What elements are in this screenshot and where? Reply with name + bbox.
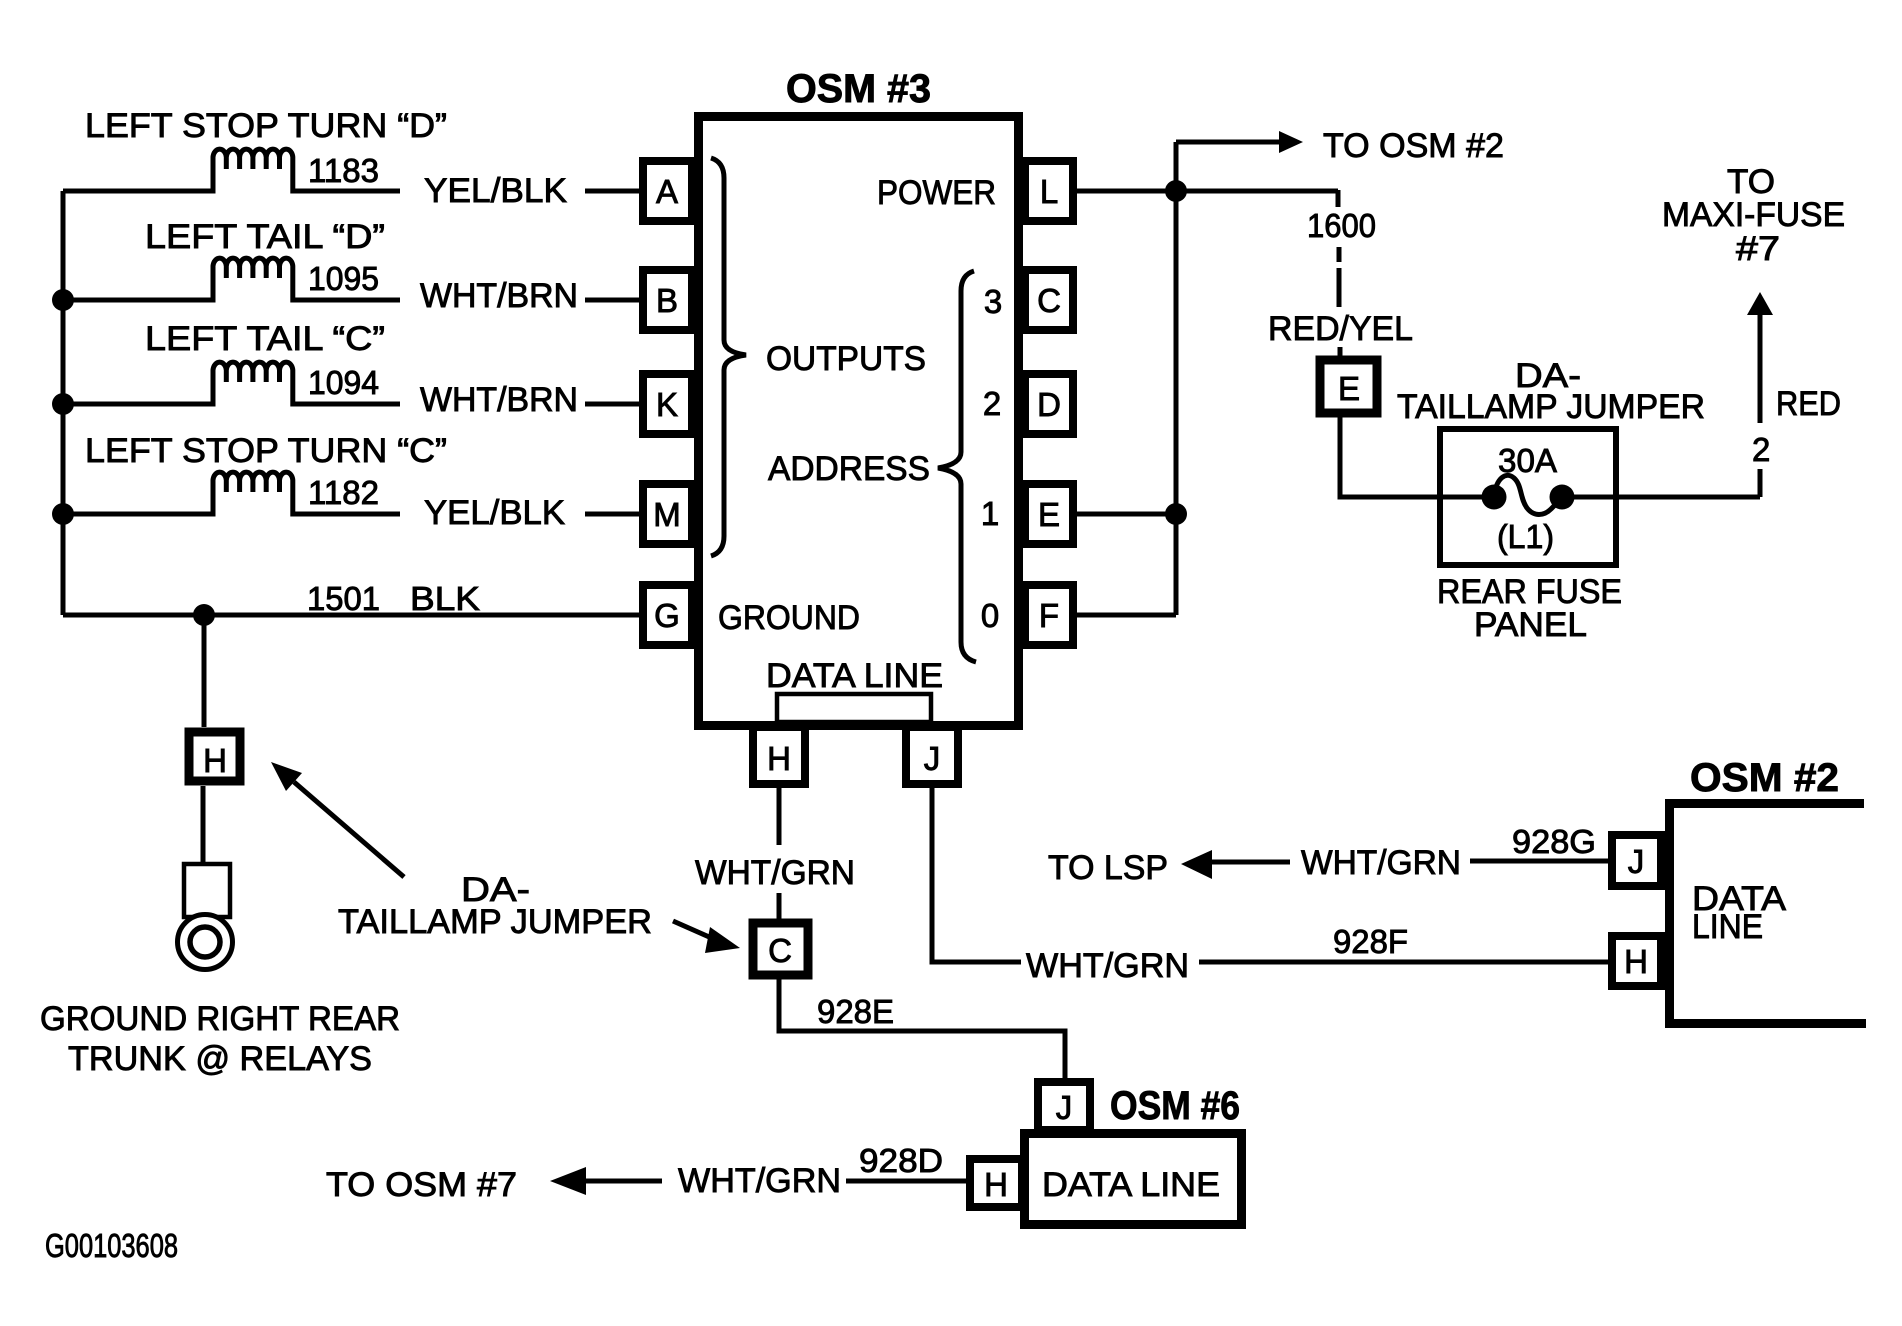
svg-text:L: L [1040, 173, 1058, 210]
svg-text:YEL/BLK: YEL/BLK [424, 494, 565, 532]
svg-text:2: 2 [983, 385, 1001, 422]
pin M [643, 484, 692, 544]
svg-text:GROUND RIGHT REAR: GROUND RIGHT REAR [40, 1000, 400, 1038]
wire left bus [61, 191, 66, 615]
arrowhead TO OSM #7 [550, 1167, 586, 1195]
right bus [1174, 142, 1179, 615]
pin F [1025, 585, 1073, 645]
svg-text:OSM #3: OSM #3 [786, 67, 931, 111]
svg-text:MAXI-FUSE: MAXI-FUSE [1662, 196, 1845, 234]
junction dot [52, 393, 74, 415]
svg-text:WHT/GRN: WHT/GRN [695, 854, 855, 892]
wire J down to OSM2 H [932, 784, 1612, 962]
pin H OSM6 [970, 1159, 1022, 1207]
wire E to bus [1073, 512, 1176, 517]
svg-text:C: C [768, 932, 792, 969]
svg-text:YEL/BLK: YEL/BLK [424, 172, 567, 210]
svg-text:928G: 928G [1512, 823, 1596, 860]
wire to ground connector [202, 615, 207, 727]
arrowhead to ground connector H [271, 762, 302, 791]
svg-text:H: H [203, 742, 227, 779]
svg-text:DATA LINE: DATA LINE [1042, 1166, 1220, 1204]
coil LEFT STOP TURN C 1182 [63, 472, 400, 514]
svg-text:RED: RED [1776, 385, 1841, 423]
svg-text:TO LSP: TO LSP [1048, 849, 1168, 887]
svg-text:POWER: POWER [877, 174, 996, 212]
pin D [1025, 374, 1073, 434]
wire dash to pin K [585, 402, 639, 407]
connector C [753, 923, 808, 975]
pin C [1025, 270, 1073, 330]
arrowhead to OSM #2 [1279, 131, 1303, 153]
svg-text:OUTPUTS: OUTPUTS [766, 340, 926, 378]
wire L to 1600 corner [1073, 189, 1338, 194]
svg-text:WHT/GRN: WHT/GRN [678, 1162, 841, 1200]
svg-text:ADDRESS: ADDRESS [768, 450, 930, 488]
svg-text:WHT/GRN: WHT/GRN [1301, 844, 1461, 882]
rear fuse panel box [1440, 429, 1616, 565]
svg-text:#7: #7 [1736, 230, 1780, 268]
pin L [1025, 161, 1073, 221]
svg-text:H: H [1624, 943, 1648, 980]
connector H ground [189, 732, 240, 781]
svg-text:WHT/GRN: WHT/GRN [1026, 947, 1189, 985]
pin K [643, 374, 692, 434]
svg-text:TO OSM #7: TO OSM #7 [326, 1166, 517, 1204]
svg-text:RED/YEL: RED/YEL [1268, 310, 1413, 348]
junction dot [1165, 503, 1187, 525]
junction dot [52, 289, 74, 311]
pin J bottom [906, 727, 958, 784]
svg-text:LEFT TAIL “C”: LEFT TAIL “C” [145, 320, 385, 358]
wire dash to pin M [585, 512, 639, 517]
pin E [1025, 484, 1073, 544]
svg-text:1183: 1183 [308, 152, 379, 189]
arrowhead to maxi-fuse [1747, 292, 1773, 315]
arrow to ground connector [294, 782, 404, 877]
coil LEFT TAIL D 1095 [63, 258, 400, 300]
pin J OSM6 [1038, 1082, 1090, 1130]
ring terminal [184, 864, 230, 917]
wire to ring terminal [201, 786, 206, 866]
svg-text:PANEL: PANEL [1474, 606, 1587, 644]
svg-text:LINE: LINE [1692, 908, 1763, 946]
svg-text:1: 1 [981, 495, 999, 532]
svg-text:LEFT STOP TURN “C”: LEFT STOP TURN “C” [85, 432, 447, 470]
svg-text:D: D [1037, 386, 1061, 423]
svg-text:WHT/BRN: WHT/BRN [420, 277, 578, 315]
svg-text:LEFT STOP TURN “D”: LEFT STOP TURN “D” [85, 107, 447, 145]
svg-text:B: B [656, 282, 678, 319]
wire dash to pin B [585, 298, 639, 303]
svg-text:3: 3 [984, 283, 1002, 320]
svg-text:G: G [654, 597, 680, 634]
wire 928D [846, 1179, 966, 1184]
svg-text:C: C [1037, 282, 1061, 319]
junction dot [1165, 180, 1187, 202]
wire dash to pin A [585, 189, 639, 194]
svg-text:1095: 1095 [308, 260, 379, 297]
svg-text:928D: 928D [859, 1142, 943, 1179]
svg-text:928E: 928E [817, 993, 894, 1030]
svg-text:DATA LINE: DATA LINE [766, 657, 943, 695]
svg-text:1094: 1094 [308, 364, 379, 401]
OSM #3 module box [699, 117, 1019, 726]
OSM2 box [1670, 804, 1867, 1024]
OSM6 box [1025, 1134, 1242, 1225]
arrowhead into connector C [705, 927, 740, 953]
junction dot [52, 503, 74, 525]
svg-text:E: E [1038, 496, 1060, 533]
svg-text:0: 0 [981, 597, 999, 634]
svg-text:G00103608: G00103608 [45, 1227, 178, 1264]
svg-text:H: H [984, 1166, 1008, 1203]
coil LEFT STOP TURN D 1183 [63, 149, 400, 191]
svg-text:GROUND: GROUND [718, 599, 860, 637]
svg-text:TO OSM #2: TO OSM #2 [1323, 127, 1504, 165]
pin H bottom [753, 727, 805, 784]
svg-text:A: A [656, 173, 678, 210]
data line bracket [777, 694, 931, 722]
coil LEFT TAIL C 1094 [63, 362, 400, 404]
svg-text:TAILLAMP JUMPER: TAILLAMP JUMPER [1397, 388, 1705, 426]
junction dot [193, 604, 215, 626]
svg-text:1600: 1600 [1307, 207, 1376, 244]
connector E [1320, 360, 1377, 413]
pin J OSM2 [1612, 835, 1661, 886]
svg-text:OSM #2: OSM #2 [1690, 756, 1839, 800]
pin A [643, 161, 692, 221]
svg-text:1501: 1501 [307, 580, 380, 617]
wire 1501 BLK ground [63, 613, 643, 618]
wire E to fuse [1340, 417, 1494, 497]
svg-text:J: J [1628, 843, 1645, 880]
svg-text:2: 2 [1752, 431, 1770, 468]
arrow to OSM #2 [1176, 140, 1279, 145]
svg-text:(L1): (L1) [1497, 518, 1554, 555]
svg-text:928F: 928F [1333, 923, 1408, 960]
svg-text:TAILLAMP JUMPER: TAILLAMP JUMPER [338, 903, 652, 941]
svg-text:OSM #6: OSM #6 [1110, 1084, 1240, 1128]
pin H OSM2 [1612, 936, 1661, 986]
svg-text:LEFT TAIL “D”: LEFT TAIL “D” [145, 218, 385, 256]
svg-text:BLK: BLK [410, 580, 480, 617]
pin B [643, 270, 692, 330]
wire 1600 segments [1338, 190, 1340, 357]
svg-text:J: J [924, 740, 941, 777]
arrowhead TO LSP [1181, 850, 1212, 879]
arrow to connector C [673, 921, 716, 940]
address brace [938, 271, 976, 662]
svg-text:F: F [1039, 597, 1059, 634]
svg-text:WHT/BRN: WHT/BRN [420, 381, 578, 419]
svg-text:TRUNK @ RELAYS: TRUNK @ RELAYS [68, 1040, 372, 1078]
wire C to OSM6 J [779, 975, 1065, 1082]
wire fuse to maxi-fuse corner [1562, 315, 1760, 497]
fuse element [1494, 475, 1562, 514]
svg-text:M: M [653, 496, 681, 533]
svg-text:K: K [656, 386, 678, 423]
pin G [643, 585, 692, 645]
svg-text:E: E [1338, 370, 1360, 407]
outputs brace [711, 158, 746, 556]
wire F to bus [1073, 613, 1176, 618]
svg-text:1182: 1182 [308, 474, 379, 511]
svg-text:J: J [1056, 1089, 1073, 1126]
wire H down [777, 784, 782, 919]
svg-text:H: H [767, 740, 791, 777]
